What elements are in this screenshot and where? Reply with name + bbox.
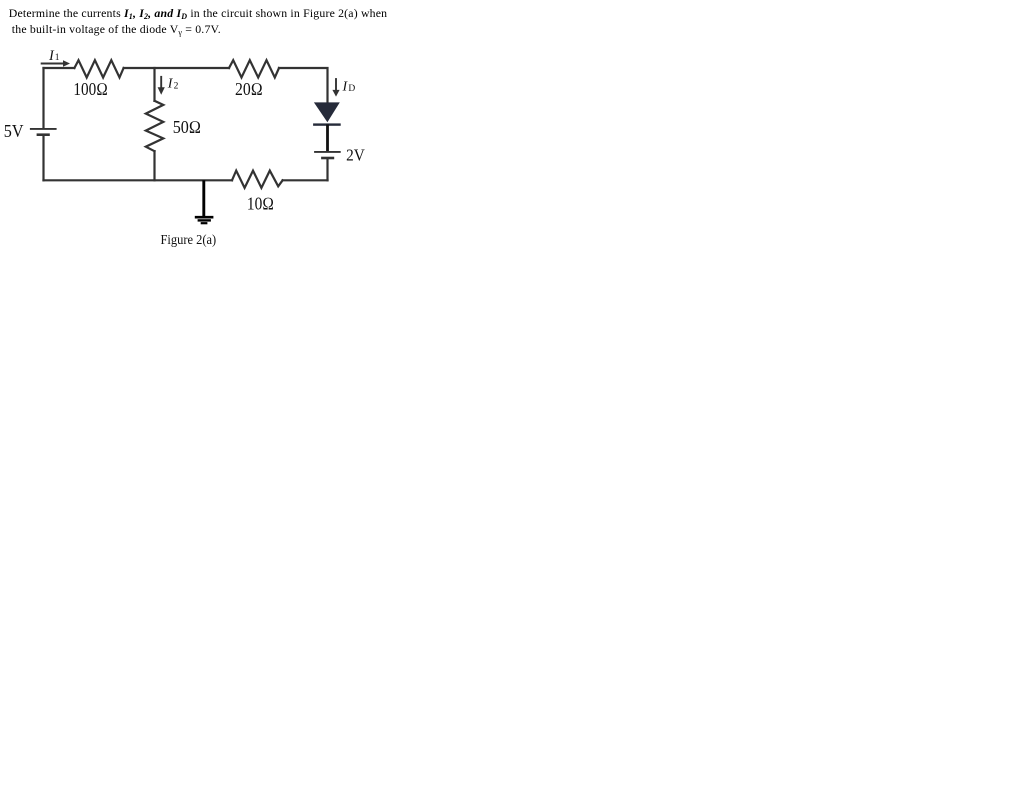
svg-text:10Ω: 10Ω <box>247 194 274 214</box>
svg-text:50Ω: 50Ω <box>173 117 202 137</box>
diode D1 <box>313 102 341 125</box>
battery V2 2V plates <box>314 152 341 158</box>
wire bottom right <box>283 179 328 181</box>
svg-text:100Ω: 100Ω <box>73 79 108 99</box>
svg-text:20Ω: 20Ω <box>235 79 263 99</box>
wire left vertical upper <box>42 68 44 128</box>
resistor R 10ohm <box>232 171 283 188</box>
wire node junction drop <box>153 68 155 101</box>
battery V1 5V plates <box>30 129 57 135</box>
svg-text:5V: 5V <box>4 121 24 141</box>
resistor R 20ohm <box>229 60 279 77</box>
svg-text:2V: 2V <box>346 145 365 164</box>
wire bottom left <box>44 179 233 181</box>
arrow current I2 <box>158 76 165 95</box>
wire top right with corner <box>279 68 328 102</box>
arrow current I1 <box>41 60 70 67</box>
resistor R 100ohm <box>74 60 123 77</box>
svg-text:2: 2 <box>174 82 179 92</box>
wire left vertical lower <box>42 136 44 181</box>
ground <box>195 180 214 223</box>
wire right below battery <box>326 159 328 180</box>
wire top middle <box>124 67 229 69</box>
svg-text:1: 1 <box>55 53 60 63</box>
problem statement text <box>9 6 439 39</box>
svg-text:D: D <box>348 84 355 94</box>
resistor R 50ohm <box>146 101 164 151</box>
svg-text:Figure 2(a): Figure 2(a) <box>161 232 217 248</box>
wire below 50ohm <box>153 151 155 180</box>
arrow current ID <box>332 78 339 97</box>
wire diode cathode to 2V battery <box>326 125 329 152</box>
wire top-left horizontal <box>44 67 75 69</box>
